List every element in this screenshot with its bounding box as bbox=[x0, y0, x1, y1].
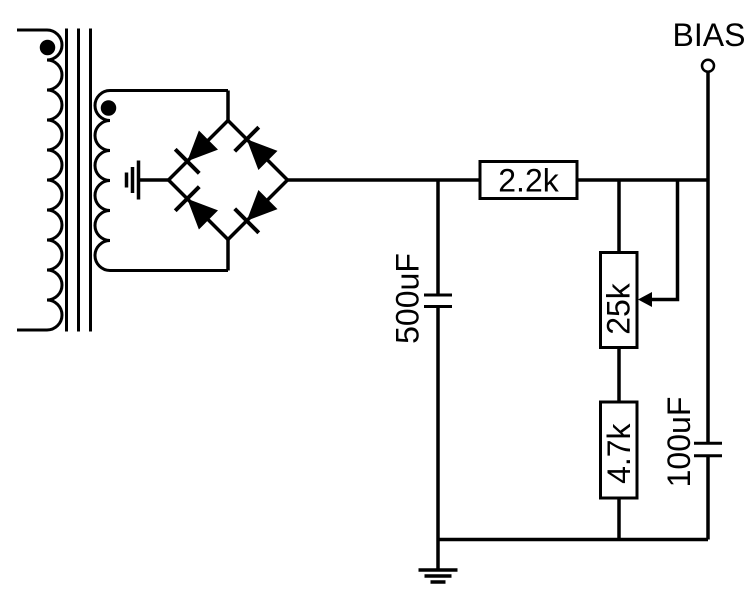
wire 100uF bottom to ground bus bbox=[706, 456, 710, 540]
resistor R1 2.2k box bbox=[480, 162, 577, 199]
wire corner up to BIAS terminal bbox=[706, 72, 710, 180]
wiper wire from top rail bbox=[652, 180, 678, 300]
potentiometer R2 25k box bbox=[601, 253, 638, 348]
capacitor C2 100uF plates bbox=[694, 443, 722, 455]
svg-text:500uF: 500uF bbox=[390, 253, 426, 344]
diode D3 (bottom-left arm) bbox=[175, 187, 218, 230]
ground (bridge left, rotated) bbox=[127, 161, 139, 200]
transformer T1 secondary winding bbox=[95, 91, 228, 271]
resistor R3 4.7k box bbox=[601, 402, 638, 498]
transformer T1 phase dot (secondary) bbox=[103, 102, 115, 114]
BIAS terminal circle bbox=[702, 60, 714, 72]
diode bridge diamond bbox=[169, 121, 288, 240]
wire secondary top to bridge top node bbox=[226, 91, 230, 121]
wire bridge right node to resistor 2.2k bbox=[288, 178, 481, 182]
svg-text:4.7k: 4.7k bbox=[601, 422, 637, 483]
wire down to potentiometer 25k bbox=[617, 180, 621, 253]
wire BIAS rail down to 100uF bbox=[706, 180, 710, 443]
wire bridge left node to ground bbox=[139, 178, 169, 182]
wire 2.2k to right corner bbox=[577, 178, 708, 182]
wire 25k bottom to 4.7k top bbox=[617, 348, 621, 403]
wire 4.7k bottom to ground bus bbox=[617, 498, 621, 540]
transformer T1 core bbox=[67, 29, 91, 332]
diode D1 (top-left arm) bbox=[175, 131, 218, 174]
capacitor C1 500uF plates bbox=[424, 295, 452, 307]
transformer T1 phase dot (primary) bbox=[42, 42, 54, 54]
diode D2 (top-right arm) bbox=[235, 127, 278, 170]
transformer T1 primary winding bbox=[17, 30, 62, 330]
diode D4 (bottom-right arm) bbox=[235, 190, 278, 233]
svg-text:25k: 25k bbox=[601, 282, 637, 335]
svg-text:BIAS: BIAS bbox=[673, 17, 746, 53]
wire 500uF bottom to ground bus bbox=[436, 307, 440, 540]
ground (bottom) bbox=[419, 570, 458, 582]
svg-text:2.2k: 2.2k bbox=[498, 163, 559, 199]
svg-text:100uF: 100uF bbox=[661, 397, 697, 488]
wiper arrow head bbox=[638, 292, 652, 307]
wire secondary bottom to bridge bottom node bbox=[226, 240, 230, 271]
wire bus to bottom ground bbox=[436, 540, 440, 571]
ground bus wire bbox=[438, 538, 708, 542]
node junction at 500uF branch bbox=[436, 180, 440, 295]
